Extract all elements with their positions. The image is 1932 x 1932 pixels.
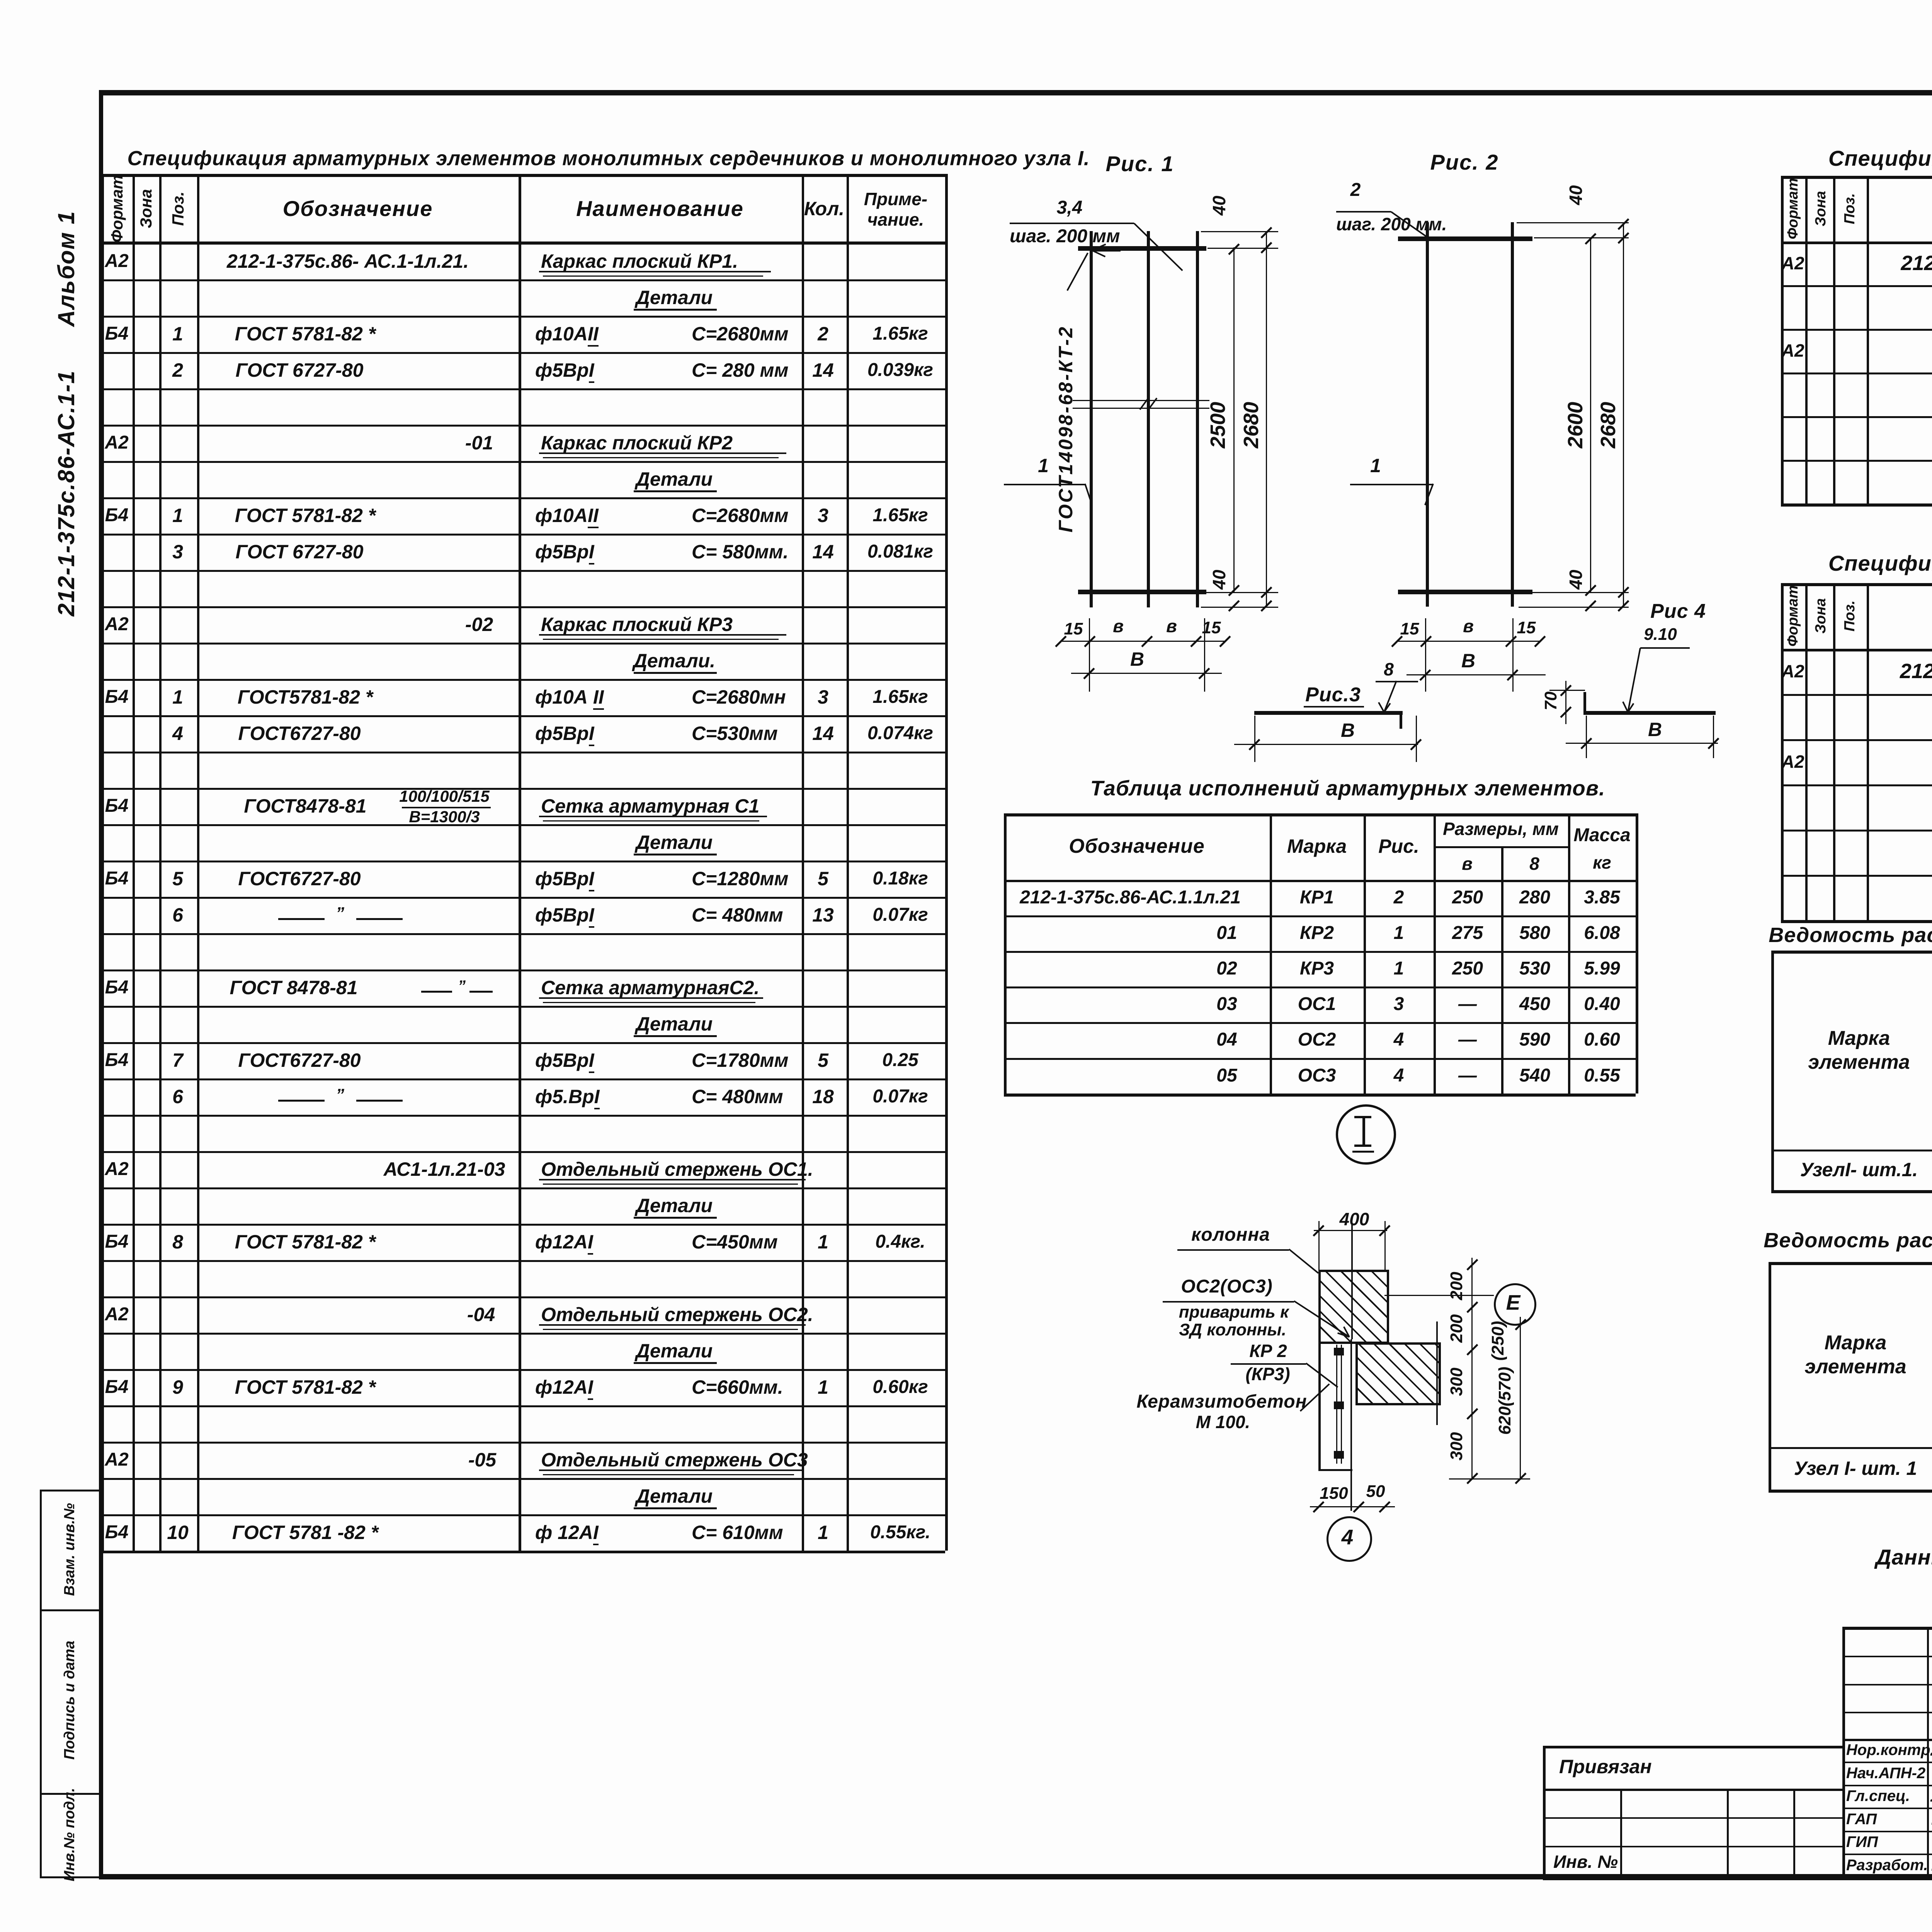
right spec table	[1828, 148, 1932, 169]
vedomost table	[1769, 925, 1932, 946]
figure Ris.3 bar	[1305, 685, 1361, 705]
figure Ris.1 rebar cage	[1106, 153, 1174, 175]
main spec table grid	[101, 174, 945, 177]
left margin boxes	[40, 1490, 42, 1878]
table ispolnenij title	[1090, 778, 1605, 799]
figure Ris.4 L-bar	[1650, 601, 1706, 621]
figure Ris.2 rebar cage	[1430, 151, 1499, 173]
rotated doc number, left margin	[55, 211, 78, 616]
node detail: circle 4	[1327, 1516, 1372, 1562]
main spec table title	[128, 148, 1090, 169]
node detail: kolonna	[1340, 1210, 1369, 1228]
table ispolnenij grid	[1004, 813, 1636, 816]
vedomost table	[1764, 1230, 1932, 1251]
sheet frame	[101, 90, 1932, 95]
node detail: wall & frame KR2	[1318, 1339, 1321, 1470]
node mark I	[1336, 1104, 1396, 1165]
main table rows	[105, 252, 128, 270]
node detail: bottom dims 150/50	[1320, 1485, 1348, 1502]
node detail labels	[1191, 1226, 1270, 1244]
title block (stamp)	[1543, 1746, 1842, 1748]
right spec table	[1828, 553, 1932, 574]
main table header	[109, 175, 125, 242]
node detail: right dim chains	[1471, 1258, 1473, 1480]
axis line to E	[1384, 1295, 1494, 1296]
